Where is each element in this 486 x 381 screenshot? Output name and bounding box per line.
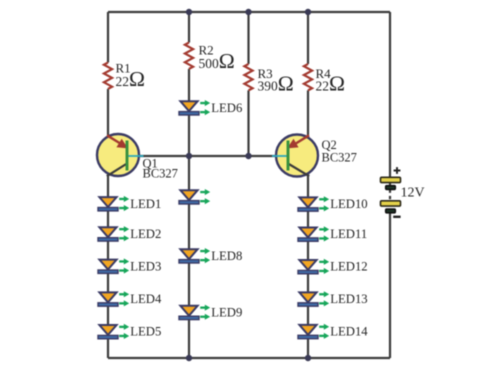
svg-text:LED6: LED6: [211, 101, 242, 115]
svg-text:12V: 12V: [401, 185, 425, 200]
svg-text:LED1: LED1: [130, 197, 161, 211]
svg-text:LED9: LED9: [211, 306, 242, 320]
svg-text:LED5: LED5: [130, 325, 161, 339]
svg-text:BC327: BC327: [143, 166, 178, 180]
svg-text:LED4: LED4: [130, 292, 162, 306]
svg-text:LED3: LED3: [130, 259, 161, 273]
svg-text:LED10: LED10: [330, 197, 367, 211]
svg-text:BC327: BC327: [322, 151, 357, 165]
svg-text:LED13: LED13: [330, 292, 367, 306]
svg-text:LED11: LED11: [330, 227, 367, 241]
svg-text:LED2: LED2: [130, 227, 161, 241]
svg-text:LED12: LED12: [330, 260, 367, 274]
svg-text:LED8: LED8: [211, 249, 242, 263]
svg-text:LED14: LED14: [330, 325, 368, 339]
